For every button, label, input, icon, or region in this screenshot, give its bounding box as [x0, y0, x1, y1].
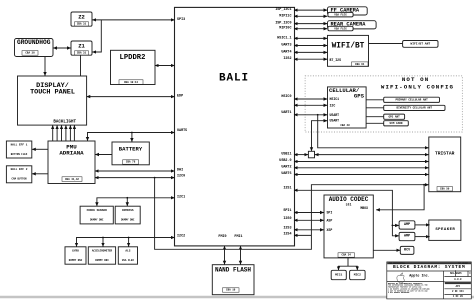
- box GROUNDHOG: [15, 39, 54, 57]
- wire I2C2 sensor bus: [77, 238, 175, 247]
- svg-text:UART6: UART6: [281, 172, 291, 176]
- sensor force sensor: [80, 206, 113, 224]
- battery: [112, 142, 149, 165]
- svg-text:UART4: UART4: [281, 50, 291, 54]
- wire FMI1 to NAND: [240, 246, 242, 264]
- svg-text:Apple Inc.: Apple Inc.: [409, 274, 429, 279]
- receiver RCV: [400, 246, 414, 254]
- svg-text:ALS: ALS: [125, 249, 130, 252]
- svg-text:I2S3: I2S3: [283, 227, 291, 231]
- connector SIM CARD: [384, 121, 409, 126]
- sensor accelerometer: [88, 247, 115, 264]
- wire UART3 to WIFI/BT: [294, 45, 327, 47]
- logo Apple: [397, 273, 405, 282]
- svg-text:SKL/EDA5: SKL/EDA5: [450, 272, 462, 275]
- wire mic split: [339, 266, 358, 270]
- wire AMP1 branch: [392, 224, 398, 226]
- wire SPI3 branch to Z1: [92, 20, 101, 52]
- svg-text:GYRO: GYRO: [72, 249, 79, 252]
- nand flash: [212, 265, 254, 295]
- wire HSIC1_1 to WIFI/BT: [294, 37, 327, 39]
- wire backlight lines: [53, 125, 75, 141]
- wire WIFI/BT to antenna: [369, 43, 403, 45]
- svg-text:BT_I2S: BT_I2S: [330, 58, 342, 62]
- svg-text:TOUCH PANEL: TOUCH PANEL: [30, 89, 75, 97]
- svg-text:VGA FLEX: VGA FLEX: [122, 259, 135, 262]
- svg-text:PDE CONFIDENTIAL: PDE CONFIDENTIAL: [389, 261, 405, 264]
- svg-text:CAM BUTTON: CAM BUTTON: [11, 178, 27, 181]
- svg-text:DUMMY DNI: DUMMY DNI: [95, 259, 109, 262]
- antenna WIFI/BT ANT: [403, 41, 438, 48]
- wire I2S0 to codec ASP: [294, 219, 324, 221]
- svg-text:AMP: AMP: [404, 223, 410, 227]
- svg-text:A.0.0: A.0.0: [454, 278, 462, 281]
- svg-text:I2C: I2C: [330, 103, 336, 107]
- amp AMP2: [399, 232, 415, 240]
- svg-text:BUTTON FLEX: BUTTON FLEX: [11, 153, 28, 156]
- svg-text:PRIMARY CELLULAR ANT: PRIMARY CELLULAR ANT: [395, 99, 428, 102]
- svg-text:Z1: Z1: [78, 43, 85, 50]
- wire AMP2 to speaker: [415, 236, 430, 238]
- svg-text:MIPI0C: MIPI0C: [279, 27, 291, 31]
- svg-text:GPS: GPS: [354, 92, 365, 99]
- svg-text:HSIC1: HSIC1: [330, 97, 340, 101]
- wire UART5 to PMU: [88, 133, 175, 141]
- svg-text:ACCELEROMETER: ACCELEROMETER: [92, 249, 113, 252]
- svg-text:CBA 41,42: CBA 41,42: [65, 178, 79, 181]
- mic MIC2: [350, 270, 366, 279]
- svg-text:BALI: BALI: [219, 73, 249, 85]
- memory LPDDR2: [111, 50, 156, 84]
- svg-text:DUMMY DNI: DUMMY DNI: [121, 219, 135, 222]
- svg-text:DWI: DWI: [177, 169, 183, 173]
- wire UART6 to TRISTAR: [294, 174, 429, 176]
- svg-text:SPI1: SPI1: [283, 209, 291, 213]
- junction AMP feed: [392, 225, 394, 227]
- wire I2S3 to codec XSP: [294, 229, 324, 231]
- svg-text:SIM CARD: SIM CARD: [390, 122, 403, 125]
- svg-text:UART2: UART2: [281, 166, 291, 170]
- wire UART1 to cellular USART: [294, 114, 327, 116]
- junction UART1/TRISTAR: [317, 114, 319, 116]
- wire MBOX to TRISTAR net: [376, 185, 424, 210]
- wire I2C1 branch to compass: [126, 198, 128, 206]
- wire I2C to cellular: [294, 104, 327, 106]
- svg-text:VGA FLEX: VGA FLEX: [334, 13, 347, 16]
- svg-text:SPI: SPI: [327, 211, 333, 215]
- svg-text:AMP: AMP: [404, 235, 410, 239]
- wire cellular to SIM card: [366, 122, 384, 124]
- page bottom border: [0, 296, 474, 298]
- svg-text:ISP_I2C1: ISP_I2C1: [275, 8, 291, 12]
- wire battery to PMU: [95, 154, 112, 156]
- svg-text:HSIC1_1: HSIC1_1: [277, 36, 291, 40]
- wire cellular to diversity ant: [366, 107, 384, 109]
- svg-text:CBA 10:14: CBA 10:14: [124, 81, 138, 84]
- antenna primary cellular: [384, 97, 440, 102]
- ic TRISTAR: [429, 137, 461, 192]
- svg-text:RCV: RCV: [404, 248, 411, 252]
- svg-text:BLOCK DIAGRAM: SYSTEM: BLOCK DIAGRAM: SYSTEM: [393, 264, 465, 270]
- mic MIC1: [331, 270, 346, 279]
- wire FMI0 to NAND: [224, 246, 226, 264]
- wire PMU to hall effect 1: [32, 148, 48, 150]
- wire UART1 branch to TRISTAR: [318, 115, 429, 148]
- wire bus branch to ALS: [128, 238, 130, 247]
- svg-text:UART1: UART1: [281, 111, 291, 115]
- svg-text:WIFI-ONLY CONFIG: WIFI-ONLY CONFIG: [381, 83, 454, 90]
- wire codec to RCV: [373, 249, 400, 251]
- svg-text:CBA 48: CBA 48: [340, 124, 350, 127]
- wire codec to mics: [347, 258, 349, 266]
- svg-text:CBA 59: CBA 59: [440, 188, 450, 191]
- svg-text:COMPASS: COMPASS: [122, 209, 134, 212]
- antenna diversity cellular: [384, 105, 445, 110]
- wire I2S2 to WIFI/BT: [294, 58, 327, 60]
- junction bus/ALS: [128, 237, 130, 239]
- svg-text:HSIC0: HSIC0: [281, 95, 291, 99]
- svg-text:FMI0: FMI0: [218, 235, 226, 239]
- wire USB2.0 to TRISTAR: [294, 161, 429, 163]
- wire Z1 to display: [80, 55, 82, 75]
- junction I2C1/compass: [126, 197, 128, 199]
- svg-text:GPS ANT: GPS ANT: [388, 115, 400, 118]
- svg-text:3 ALL RIGHTS RESERVED: 3 ALL RIGHTS RESERVED: [388, 291, 409, 294]
- camera REAR: [328, 21, 377, 31]
- box hall effect 1: [6, 141, 31, 158]
- wire I2S4 stub: [294, 234, 311, 236]
- svg-text:USART: USART: [330, 119, 340, 123]
- box Z2: [71, 12, 92, 26]
- svg-text:I2S2: I2S2: [283, 57, 291, 61]
- svg-text:MIPI1C: MIPI1C: [279, 14, 291, 18]
- svg-text:I2S4: I2S4: [283, 232, 291, 236]
- svg-text:DUMMY DNI: DUMMY DNI: [69, 259, 83, 262]
- wire GROUNDHOG to display: [44, 57, 46, 76]
- wire USB11 to dock node: [294, 154, 308, 156]
- wire I2S1 to AMPs: [294, 190, 399, 236]
- junction UART5/battery: [131, 132, 133, 134]
- svg-text:MBOX: MBOX: [360, 206, 368, 210]
- wire ISP_I2C0 to rear camera: [294, 23, 327, 25]
- wire PMU to hall effect 2: [32, 173, 48, 175]
- svg-text:CBA 16: CBA 16: [226, 289, 236, 292]
- wire UART5 branch to battery: [131, 133, 133, 142]
- junction I2C0: [154, 177, 156, 179]
- antenna GPS: [384, 114, 405, 119]
- node dock connector: [308, 151, 314, 158]
- wire I2C0 PMU to BALI: [95, 177, 175, 179]
- svg-text:I2C1: I2C1: [177, 195, 185, 199]
- wire SPI1 to codec: [294, 212, 324, 214]
- svg-text:VGA FLEX: VGA FLEX: [334, 27, 347, 30]
- svg-text:NAND FLASH: NAND FLASH: [215, 266, 251, 273]
- svg-text:MIC2: MIC2: [354, 274, 361, 277]
- camera FF: [328, 7, 368, 17]
- svg-text:I2C2: I2C2: [177, 235, 185, 239]
- wire DWI PMU to BALI: [95, 170, 175, 172]
- svg-text:I2S1: I2S1: [283, 186, 291, 190]
- soc U1 BALI: [175, 7, 295, 246]
- svg-text:MIC1: MIC1: [335, 274, 342, 277]
- svg-text:CBA 31: CBA 31: [77, 52, 87, 55]
- wire cellular to GPS ant: [366, 116, 384, 118]
- svg-text:LPDDR2: LPDDR2: [120, 54, 146, 62]
- svg-text:DIVERSITY CELLULAR ANT: DIVERSITY CELLULAR ANT: [397, 107, 433, 110]
- svg-text:NOT ON: NOT ON: [402, 76, 429, 83]
- svg-text:XSP: XSP: [327, 228, 333, 232]
- wire USART to dock node: [312, 121, 328, 151]
- svg-text:Z2: Z2: [78, 14, 85, 21]
- svg-text:API: API: [456, 285, 461, 288]
- wire bus branch to accelerometer: [102, 238, 104, 247]
- svg-text:HALL EFF 2: HALL EFF 2: [11, 168, 28, 171]
- wire EDP to display: [87, 96, 175, 98]
- svg-text:2 OF 154: 2 OF 154: [452, 290, 464, 293]
- svg-text:ISP_I2C0: ISP_I2C0: [275, 22, 291, 26]
- svg-text:GROUNDHOG: GROUNDHOG: [17, 39, 51, 46]
- svg-text:CBA 34: CBA 34: [342, 254, 352, 257]
- svg-text:L61: L61: [346, 202, 352, 206]
- wire dock node to TRISTAR: [315, 154, 429, 156]
- svg-text:WIFI/BT ANT: WIFI/BT ANT: [410, 42, 430, 46]
- svg-text:SPEAKER: SPEAKER: [435, 228, 455, 232]
- svg-text:I2S0: I2S0: [283, 217, 291, 221]
- svg-text:FMI1: FMI1: [234, 235, 242, 239]
- sensor ALS: [118, 247, 137, 264]
- svg-text:CBA 30: CBA 30: [25, 52, 35, 55]
- wire HSIC0 to cellular: [294, 98, 327, 100]
- wire ISP_I2C1 to FF camera: [294, 9, 327, 11]
- svg-text:USB2.0: USB2.0: [279, 159, 291, 163]
- svg-text:BACKLIGHT: BACKLIGHT: [53, 120, 76, 124]
- svg-text:ASP: ASP: [327, 218, 333, 222]
- speaker: [429, 220, 461, 240]
- sensor gyro: [65, 247, 86, 264]
- wire cellular to primary ant: [366, 99, 384, 101]
- svg-text:CBA 61: CBA 61: [355, 63, 365, 66]
- svg-text:ADRIANA: ADRIANA: [59, 150, 84, 157]
- svg-text:1 OF 29: 1 OF 29: [453, 295, 464, 298]
- pmu U2 ADRIANA: [48, 141, 95, 184]
- module CELLULAR/GPS: [328, 87, 367, 128]
- svg-text:HALL EFF 1: HALL EFF 1: [11, 143, 28, 146]
- wire GROUNDHOG to Z1: [53, 47, 70, 49]
- svg-text:USART: USART: [330, 113, 340, 117]
- svg-text:CBA 78: CBA 78: [126, 161, 136, 164]
- box hall effect 2: [6, 166, 31, 183]
- svg-text:DUMMY DNI: DUMMY DNI: [90, 219, 104, 222]
- wire SPI3 to Z2: [92, 19, 174, 21]
- title block: [387, 261, 472, 299]
- dashed region NOT ON WIFI-ONLY CONFIG: [305, 76, 462, 132]
- svg-text:I2C0: I2C0: [177, 174, 185, 178]
- svg-text:TRISTAR: TRISTAR: [435, 151, 455, 157]
- wire MIPI0C to rear camera: [294, 28, 327, 30]
- display panel: [18, 76, 87, 125]
- svg-text:FORCE SENSOR: FORCE SENSOR: [87, 209, 107, 212]
- svg-text:CBA 31: CBA 31: [77, 23, 87, 26]
- amp AMP1: [399, 221, 415, 229]
- wire UART4 to WIFI/BT: [294, 51, 327, 53]
- junction bus/accelerometer: [102, 237, 104, 239]
- svg-text:UART3: UART3: [281, 44, 291, 48]
- svg-text:UART5: UART5: [177, 129, 187, 133]
- wire MIPI1C to FF camera: [294, 15, 327, 17]
- wire AMP1 to speaker: [415, 224, 430, 226]
- svg-text:EDP: EDP: [177, 95, 183, 99]
- junction MBOX tristar net: [423, 184, 425, 186]
- svg-text:USB11: USB11: [281, 153, 291, 157]
- svg-text:SPI3: SPI3: [177, 18, 185, 22]
- wire I2C1 to force sensor: [97, 198, 175, 206]
- wire I2C0 wrap to TRISTAR: [155, 178, 429, 250]
- codec AUDIO CODEC: [324, 195, 373, 258]
- svg-text:BATTERY: BATTERY: [119, 145, 143, 152]
- module WIFI/BT: [328, 35, 369, 66]
- svg-text:WIFI/BT: WIFI/BT: [332, 43, 365, 51]
- sensor compass: [115, 206, 140, 224]
- wire UART2 to TRISTAR: [294, 167, 429, 169]
- box Z1: [71, 41, 92, 55]
- wire LPDDR2 to BALI: [155, 65, 175, 67]
